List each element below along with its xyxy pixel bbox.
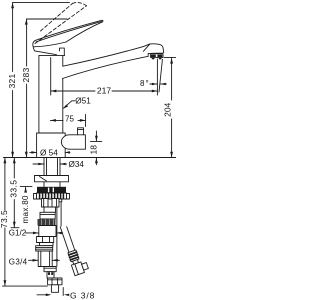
connector band tube [40, 207, 56, 219]
svg-text:204: 204 [163, 102, 173, 116]
dim Ø34 arrows [33, 163, 67, 166]
8 deg vertical reference line [156, 59, 158, 95]
svg-text:75: 75 [65, 115, 74, 124]
supply hose [58, 223, 89, 276]
svg-text:Ø 54: Ø 54 [40, 149, 58, 158]
vertical hose line [56, 202, 58, 266]
dim 75 line [50, 119, 85, 122]
bottom reference line [3, 285, 48, 287]
svg-text:Ø34: Ø34 [69, 160, 85, 169]
handle nose front [33, 41, 35, 51]
side valve nipple [78, 128, 84, 135]
ribbed washer plate [34, 193, 70, 199]
svg-text:Ø51: Ø51 [75, 97, 91, 106]
spout head outline [144, 44, 164, 57]
dimension 283 extension line (top) [27, 18, 67, 20]
dim 217 extension line (body axis) [50, 58, 52, 96]
striped collar [36, 246, 53, 251]
dim Ø54 arrows [30, 151, 70, 154]
faucet body right edge lower [62, 79, 64, 134]
dim max.80 tick and arrow [20, 187, 32, 193]
base escutcheon [37, 133, 66, 157]
svg-text:33.5: 33.5 [9, 180, 19, 198]
aerator [150, 54, 163, 58]
side valve cylinder [61, 135, 69, 149]
svg-text:G1/2: G1/2 [9, 229, 27, 238]
svg-text:max.80: max.80 [21, 195, 30, 224]
long tube [38, 251, 52, 267]
svg-text:73.5: 73.5 [0, 210, 9, 228]
handle collar [60, 48, 65, 55]
thin tube with thread marks [47, 272, 54, 278]
dimension 321 extension line (top) [13, 2, 70, 4]
svg-text:217: 217 [97, 86, 111, 96]
two legs [42, 199, 49, 208]
faucet body left edge [38, 56, 40, 133]
faucet body top edge [39, 55, 65, 57]
svg-text:283: 283 [21, 67, 31, 82]
dim 18 [90, 131, 101, 165]
valve hex flange [37, 237, 54, 243]
svg-text:G3/4: G3/4 [9, 258, 28, 267]
dim 73.5 line [4, 158, 7, 286]
rubber seal (black band) [37, 187, 66, 193]
8 deg arrows [150, 83, 167, 86]
spout top edge [63, 46, 144, 66]
svg-text:18: 18 [89, 145, 99, 155]
handle wedge bottom edge [35, 51, 57, 55]
valve body G1/2 [39, 226, 56, 237]
handle lever blade top edge [35, 20, 103, 40]
spout bottom edge [62, 56, 148, 78]
gap tube [40, 243, 54, 246]
mounting flange [35, 176, 69, 182]
knurled dark band [38, 219, 56, 226]
G3/4 arrow [29, 259, 60, 262]
handle wedge inner seam [34, 42, 67, 47]
tube between flange and seal [44, 182, 60, 187]
faucet body right edge upper [62, 56, 64, 67]
raised handle dashed outline [35, 3, 87, 44]
Ø51 leader [64, 101, 75, 108]
G3/8 arrows [37, 288, 69, 297]
countertop line [4, 157, 177, 159]
svg-text:321: 321 [7, 73, 17, 88]
dim 75 right extension line [85, 115, 87, 127]
dim 204 vertical line [170, 58, 173, 157]
dimension 283 vertical line [25, 19, 28, 157]
svg-text:G 3/8: G 3/8 [70, 290, 95, 300]
G3/8 thread stub [51, 285, 58, 293]
dim 217 line [51, 90, 158, 93]
svg-text:8°: 8° [140, 79, 149, 88]
bottom hex nut [48, 278, 62, 285]
lower collar band [44, 267, 56, 272]
G1/2 arrows [26, 232, 63, 235]
shank below counter [44, 158, 60, 176]
dim 33.5 line [11, 158, 19, 228]
vertical hose elbow nub [55, 198, 61, 202]
spout head seam [143, 44, 149, 51]
handle blade top highlight line [36, 21, 102, 42]
handle blade underside [66, 22, 103, 42]
dim 204 extension line at spout tip [164, 56, 176, 58]
8 deg angled line [159, 60, 162, 93]
dimension 321 vertical line [11, 3, 14, 158]
